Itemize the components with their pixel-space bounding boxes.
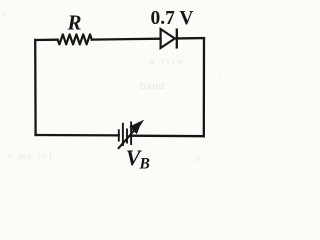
resistor R (58, 34, 92, 44)
battery plate 1 (short) (118, 129, 120, 141)
svg-text:R: R (67, 11, 82, 35)
battery plate 3 (short) (126, 129, 128, 144)
battery plate 4 (long) (130, 122, 132, 146)
svg-text:: .: : . (98, 6, 104, 14)
wire: bottom right segment (131, 135, 204, 138)
svg-text:th.: th. (2, 10, 9, 18)
wire: bottom left segment (36, 134, 119, 137)
wire: left vertical side (34, 40, 37, 135)
battery plate 2 (long) (122, 123, 124, 146)
svg-text:0.7 V: 0.7 V (151, 8, 194, 29)
diode cathode bar (176, 30, 178, 48)
variable-source arrow head (129, 120, 144, 135)
wire: diode to top-right corner (177, 37, 204, 40)
svg-text:B: B (139, 156, 150, 173)
svg-text:. ..s: . ..s (175, 153, 203, 163)
svg-text:r: r (218, 68, 221, 77)
battery VB plates (119, 122, 131, 147)
faint scan bleed-through marks (2, 6, 221, 163)
svg-text:band: band (140, 80, 165, 92)
diode triangle (anode) (161, 29, 175, 48)
svg-text:a view': a view' (150, 56, 189, 66)
wire: top side, corner to resistor (35, 39, 57, 42)
variable-source arrow shaft (118, 126, 138, 149)
wire: right vertical side (203, 38, 205, 136)
wire: resistor to diode (92, 38, 161, 41)
svg-text:e ma (c): e ma (c) (8, 151, 53, 161)
